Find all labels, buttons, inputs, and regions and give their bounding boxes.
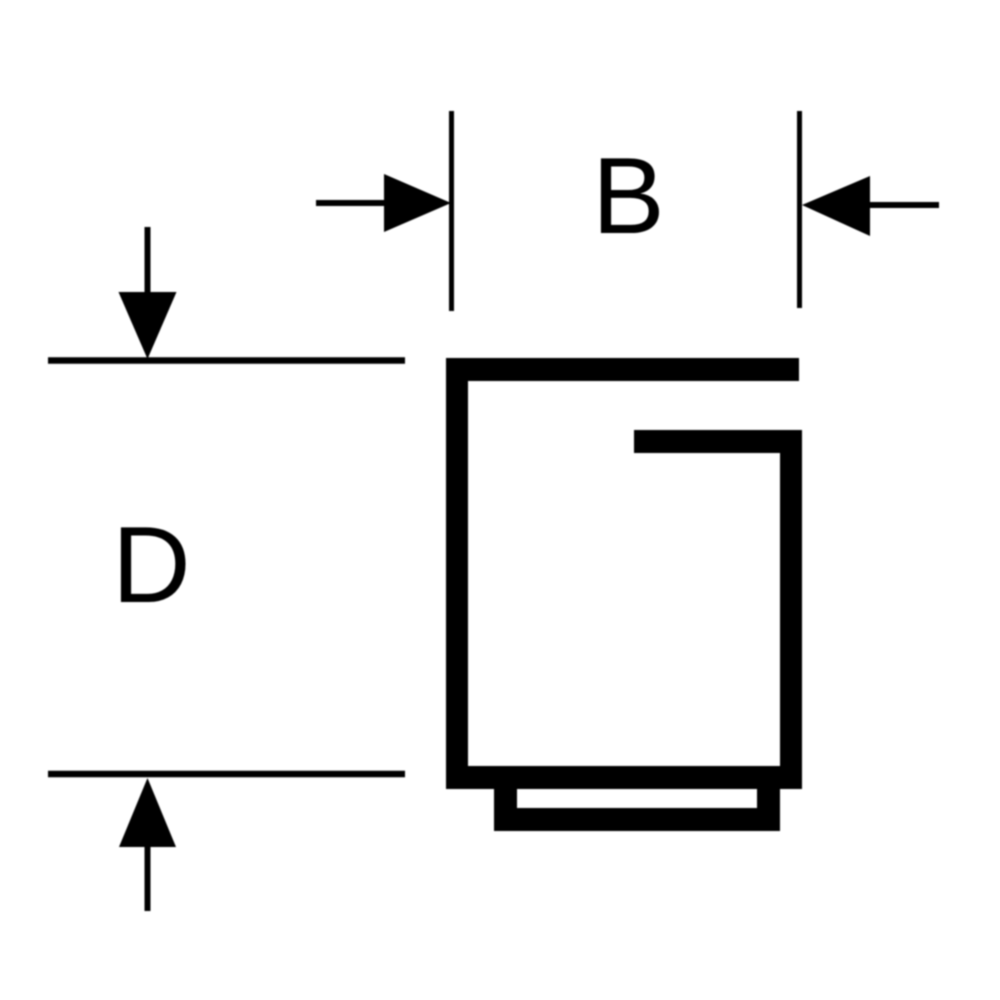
- dimension B: right arrow tail: [866, 202, 939, 208]
- part outline: right wall: [780, 430, 802, 789]
- svg-text:B: B: [592, 135, 665, 257]
- svg-text:D: D: [112, 504, 191, 626]
- dimension B: left extension line: [449, 111, 454, 311]
- part outline: left wall: [446, 358, 468, 789]
- dimension D: bottom arrow tail: [145, 843, 151, 911]
- dimension B: left arrow tail: [316, 200, 390, 206]
- dimension B: right extension line: [797, 111, 802, 308]
- dimension B: right arrowhead: [802, 176, 870, 236]
- dimension D: bottom extension line: [48, 771, 405, 778]
- dimension D: top arrowhead (down): [119, 292, 177, 359]
- part outline: top wall: [446, 358, 799, 381]
- part outline: flange left wall: [494, 789, 517, 831]
- dimension D: top extension line: [48, 357, 405, 364]
- dimension D: top arrow tail: [145, 227, 151, 295]
- dimension D: bottom arrowhead (up): [119, 778, 176, 847]
- dimension B: left arrowhead: [384, 174, 451, 232]
- part outline: flange bottom wall: [494, 808, 780, 831]
- part outline: inner notch bar: [634, 430, 802, 453]
- part outline: bottom wall: [446, 766, 802, 789]
- part outline: flange right wall: [757, 789, 780, 831]
